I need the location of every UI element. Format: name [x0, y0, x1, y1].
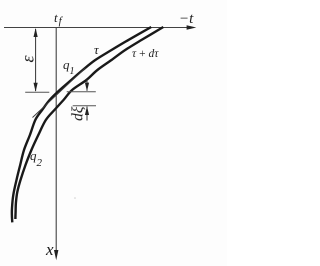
curve tau+dtau	[15, 27, 163, 219]
label dxi (rotated)	[70, 107, 86, 121]
dxi tick 2	[73, 105, 96, 107]
label tau + dtau	[132, 48, 158, 60]
epsilon tick	[25, 91, 49, 93]
vertical x-axis	[55, 28, 57, 252]
curve tau	[12, 27, 151, 222]
epsilon arrowhead down	[34, 83, 38, 92]
epsilon arrowhead up	[34, 28, 38, 37]
label q2	[30, 149, 42, 163]
label tau	[93, 42, 98, 55]
label -t	[179, 11, 193, 26]
t-axis arrowhead	[187, 25, 197, 29]
dxi upper shaft with down arrow	[86, 80, 88, 91]
label q1	[62, 58, 74, 72]
dxi lower shaft with up arrow	[86, 107, 88, 121]
label epsilon (rotated)	[19, 55, 37, 62]
x-axis arrowhead	[54, 250, 58, 260]
wire horizontal t-axis	[4, 27, 189, 29]
dxi tick 1	[67, 91, 96, 93]
label t_f	[53, 10, 61, 24]
epsilon dimension shaft	[35, 29, 37, 91]
scan speck	[74, 197, 76, 199]
label x	[46, 241, 54, 258]
tangent line	[33, 68, 86, 118]
